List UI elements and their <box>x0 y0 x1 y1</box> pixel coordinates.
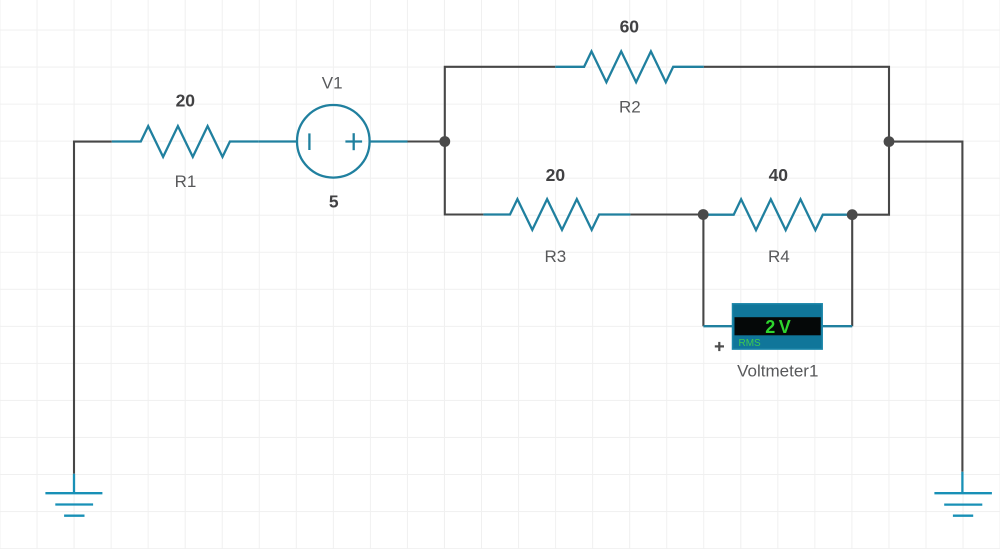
resistor R1 <box>112 126 259 157</box>
wire: R2 right pin over and down to node B <box>704 67 889 142</box>
svg-text:R1: R1 <box>175 172 197 191</box>
wire: R3 right pin to node C <box>630 213 703 215</box>
wire: node B to right ground drop <box>889 142 962 472</box>
junction node A <box>439 136 450 147</box>
svg-text:60: 60 <box>620 17 640 37</box>
voltmeter Voltmeter1 <box>703 304 852 349</box>
svg-text:RMS: RMS <box>739 338 762 349</box>
svg-text:20: 20 <box>546 165 566 185</box>
svg-text:2 V: 2 V <box>765 317 790 337</box>
junction node D <box>847 209 858 220</box>
wire: V1 positive pin to node A <box>408 140 445 142</box>
wire: node C down to voltmeter left pin <box>702 215 704 327</box>
svg-text:R4: R4 <box>768 247 790 266</box>
svg-text:40: 40 <box>769 165 789 185</box>
svg-text:5: 5 <box>329 191 339 211</box>
resistor R2 <box>555 51 704 82</box>
junction node B <box>884 136 895 147</box>
wire: node D down to voltmeter right pin <box>851 215 853 327</box>
voltage source V1 <box>259 105 408 178</box>
wire: node A up and over to R2 left pin <box>445 67 556 142</box>
ground symbol (right) <box>934 472 992 516</box>
svg-text:R2: R2 <box>619 98 641 117</box>
svg-text:R3: R3 <box>545 247 567 266</box>
wire: node A down to R3 left pin <box>445 142 484 215</box>
resistor R3 <box>483 199 630 230</box>
junction node C <box>698 209 709 220</box>
resistor R4 <box>703 199 852 230</box>
wire: node B down and left to node D <box>852 142 889 215</box>
wire: left net from R1 left pin down to left ground <box>74 142 112 474</box>
svg-text:Voltmeter1: Voltmeter1 <box>737 362 818 381</box>
ground symbol (left) <box>45 474 102 516</box>
svg-text:20: 20 <box>176 91 196 111</box>
svg-text:V1: V1 <box>322 73 343 92</box>
plus polarity marker (Voltmeter1) <box>715 342 724 351</box>
